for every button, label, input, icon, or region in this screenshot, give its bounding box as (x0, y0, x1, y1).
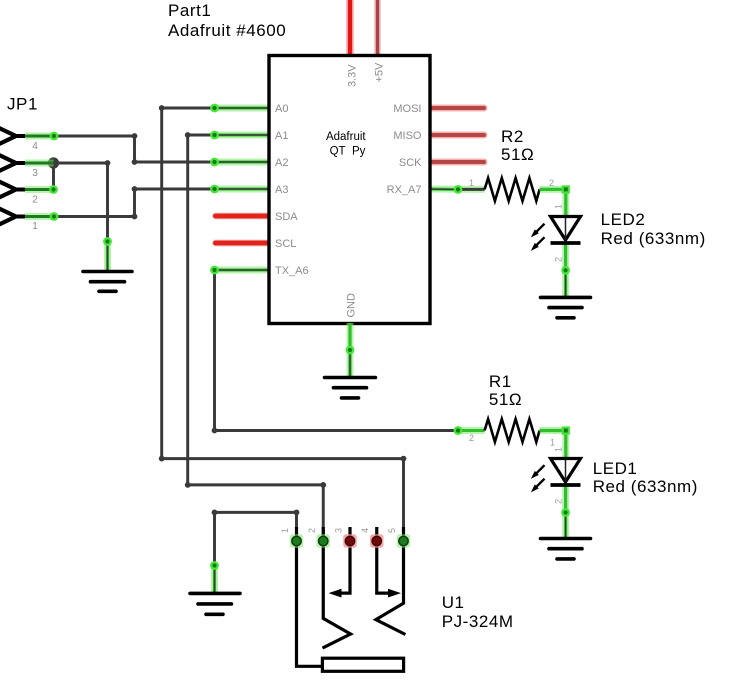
pin QTPy.TX_A6 stub (215, 267, 270, 274)
wire A2 net: QTPy.A2 to JP1.4 (54, 136, 215, 162)
node green dot A0 (210, 104, 219, 113)
svg-text:2: 2 (554, 499, 564, 504)
svg-text:2: 2 (469, 433, 474, 443)
node TX_A6 bendpoint (212, 428, 218, 434)
node green dot JP1.1 (50, 212, 59, 221)
svg-text:U1: U1 (442, 593, 465, 612)
node green dot JP1.2 (49, 185, 58, 194)
ground symbol GND (U1) (190, 593, 240, 614)
wire green LED1.2 to ground (562, 485, 569, 539)
node A1 bendpoints (185, 132, 326, 488)
pin QTPy.3.3V red stub (346, 0, 354, 57)
wire A3 net: QTPy.A3 to JP1.1 (54, 189, 215, 217)
svg-text:LED2: LED2 (601, 210, 646, 229)
pin QTPy.RX_A7 stub (431, 186, 485, 193)
wire green LED2.2 to ground (562, 243, 569, 297)
pin QTPy.MOSI red stub (431, 105, 484, 112)
node green dot LED1.2 (561, 508, 570, 517)
pin QTPy.MISO red stub (431, 132, 484, 139)
svg-text:TX_A6: TX_A6 (275, 265, 309, 277)
svg-text:Adafruit #4600: Adafruit #4600 (168, 21, 286, 40)
led LED1 (531, 459, 581, 493)
svg-text:1: 1 (550, 438, 555, 448)
node green dot JP1.4 (50, 132, 59, 141)
svg-text:MOSI: MOSI (393, 103, 421, 115)
ground symbol GND (JP1) (83, 272, 132, 292)
svg-text:2: 2 (554, 257, 564, 262)
node A3 bendpoints (132, 186, 138, 219)
svg-text:3: 3 (334, 528, 344, 533)
svg-text:R2: R2 (501, 127, 524, 146)
pin QTPy.SCL red stub (216, 240, 268, 247)
wire JP1.3/JP1.2 ground net (54, 163, 108, 242)
pin U1.5 circle (397, 534, 411, 548)
led LED2 (531, 217, 581, 251)
node green dot TX_A6 (210, 266, 219, 275)
node green dot JP1 gnd (103, 237, 112, 246)
pin QTPy.A0 stub (215, 105, 270, 112)
wire A0 net: QTPy.A0 to U1.5 (162, 108, 404, 536)
svg-text:4: 4 (360, 528, 370, 533)
node bendpoint (105, 160, 111, 166)
svg-text:LED1: LED1 (593, 459, 638, 478)
svg-text:51Ω: 51Ω (489, 390, 522, 409)
node green dot A2 (210, 158, 219, 167)
arrow U1.4 contact (388, 589, 401, 598)
pin R1.2 stub (458, 427, 485, 434)
node green dot QTPy GND (346, 346, 355, 355)
svg-text:3.3V: 3.3V (347, 64, 359, 87)
pin JP1.3 (25, 160, 54, 167)
pin QTPy.SCK red stub (431, 159, 484, 166)
node green dot RX_A7/R2.1 (454, 185, 463, 194)
pin U1.3 circle (343, 534, 357, 548)
svg-text:GND: GND (346, 293, 358, 318)
pin QTPy.A2 stub (215, 159, 270, 166)
svg-text:MISO: MISO (393, 130, 422, 142)
svg-text:Red (633nm): Red (633nm) (601, 229, 706, 248)
pin QTPy.SDA red stub (216, 213, 268, 220)
ground symbol GND (LED1) (541, 539, 591, 559)
svg-text:1: 1 (469, 178, 474, 188)
resistor R1 (485, 419, 540, 442)
arrow U1.3 contact (329, 589, 342, 598)
pin JP1.4 (25, 133, 54, 140)
pin QTPy.+5V red stub (374, 0, 381, 57)
pin QTPy.A3 stub (215, 186, 270, 193)
node green dot R1.2 (454, 426, 463, 435)
svg-text:Red (633nm): Red (633nm) (593, 477, 698, 496)
pin JP1.2 (25, 186, 54, 193)
svg-text:Part1: Part1 (168, 1, 211, 20)
svg-text:51Ω: 51Ω (501, 145, 534, 164)
label Adafruit QT Py inside (326, 131, 366, 158)
node A0 bendpoints (159, 105, 407, 461)
node A2 bendpoints (132, 133, 138, 165)
node green dot LED2.2 (561, 266, 570, 275)
svg-text:QT Py: QT Py (330, 146, 366, 158)
svg-text:A1: A1 (275, 130, 288, 142)
wire U1.1 ground net (215, 512, 297, 565)
wire A1 net: QTPy.A1 to U1.2 (188, 135, 324, 536)
resistor R2 (485, 178, 540, 201)
node U1.1 bendpoints (212, 510, 300, 516)
svg-text:3: 3 (32, 168, 38, 179)
wire green R2.2 to LED2.1 (540, 189, 566, 216)
svg-text:R1: R1 (489, 372, 512, 391)
ic QTPy Part1 box (269, 56, 430, 324)
svg-text:4: 4 (32, 141, 38, 152)
svg-text:Adafruit: Adafruit (326, 131, 366, 143)
svg-text:1: 1 (554, 447, 564, 452)
svg-text:+5V: +5V (374, 62, 386, 83)
pin U1.2 circle (317, 534, 331, 548)
node green dot U1 gnd (210, 561, 219, 570)
svg-text:A0: A0 (275, 103, 288, 115)
svg-text:SDA: SDA (275, 211, 298, 223)
node green square R2.2 corner (562, 185, 570, 193)
pin U1.1 circle (290, 534, 304, 548)
pin JP1.1 (25, 213, 54, 220)
wire green JP1 ground pin (104, 242, 111, 272)
node green square R1.1 corner (562, 426, 570, 434)
svg-text:PJ-324M: PJ-324M (442, 612, 514, 631)
svg-text:A2: A2 (275, 157, 288, 169)
svg-text:2: 2 (32, 195, 38, 206)
wire green U1 ground pin (211, 566, 218, 594)
ground symbol GND (QTPy) (325, 378, 376, 398)
svg-text:RX_A7: RX_A7 (387, 184, 422, 196)
svg-text:5: 5 (387, 528, 397, 533)
junction JP1.3 (48, 157, 59, 168)
audio jack U1 PJ-324M (297, 527, 406, 671)
svg-text:SCL: SCL (275, 238, 296, 250)
wire green QTPy GND to ground (347, 323, 354, 378)
svg-text:1: 1 (32, 221, 38, 232)
node green dot A1 (210, 131, 219, 140)
svg-text:1: 1 (554, 204, 564, 209)
svg-text:2: 2 (307, 528, 317, 533)
pin QTPy.A1 stub (215, 132, 270, 139)
svg-text:1: 1 (280, 528, 290, 533)
svg-text:A3: A3 (275, 184, 288, 196)
svg-text:JP1: JP1 (7, 95, 38, 114)
wire green R1.1 to LED1.1 (540, 431, 566, 459)
svg-text:SCK: SCK (399, 157, 422, 169)
node green dot A3 (210, 185, 219, 194)
connector JP1 (0, 128, 25, 226)
wire TX_A6 net: QTPy.TX_A6 to R1.2 (215, 270, 459, 431)
pin U1.4 circle (370, 534, 384, 548)
ground symbol GND (LED2) (541, 297, 591, 317)
